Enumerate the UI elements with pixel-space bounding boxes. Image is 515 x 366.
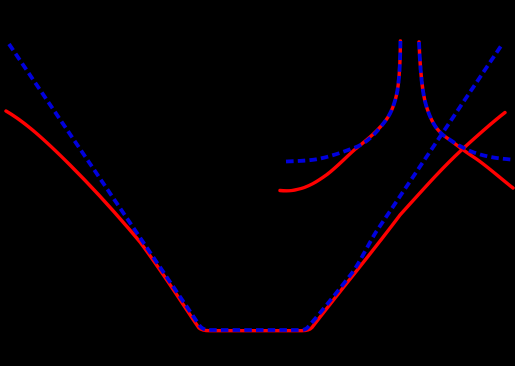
blue dashed V: left arm, plateau, right arm [9,43,503,330]
blue dashed pole right branch + flat tail [419,42,511,160]
blue dashed pole left wing + left branch [286,41,400,162]
red pole curve left wing + left branch [280,41,400,191]
red V curve (solid): left arm, plateau, right arm [6,111,505,331]
red pole curve right branch + descending tail [419,42,513,188]
